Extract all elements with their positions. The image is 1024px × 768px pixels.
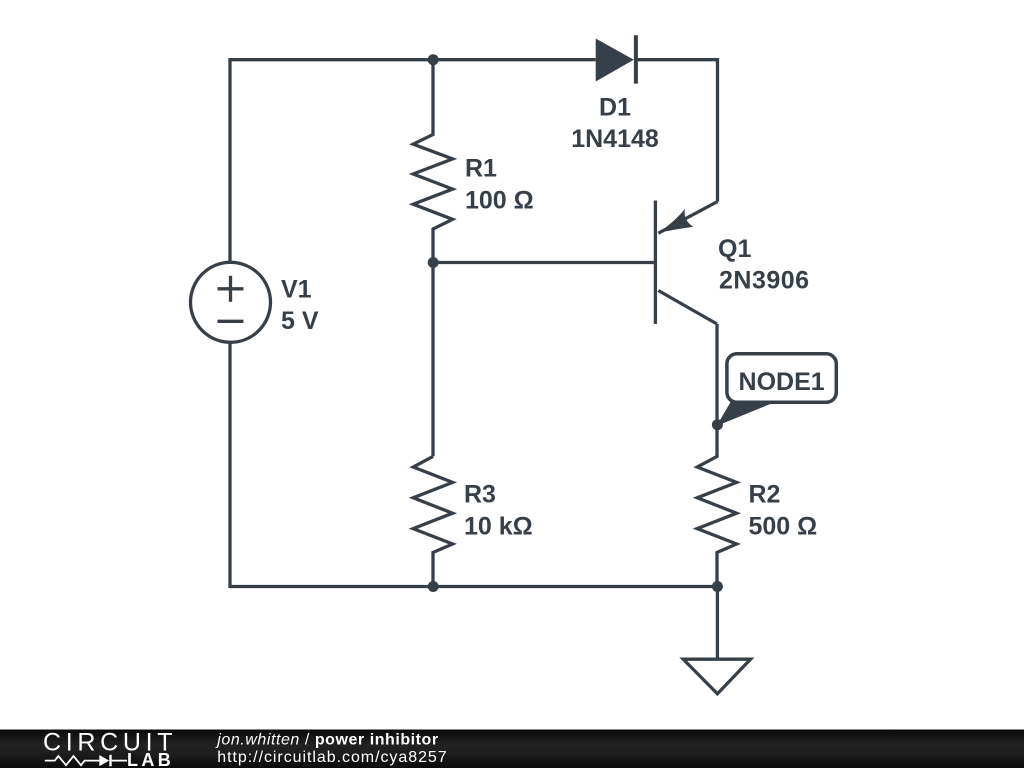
svg-text:R3: R3	[464, 481, 496, 509]
svg-text:Q1: Q1	[718, 235, 751, 263]
wire: base wire from junction to Q1	[433, 261, 654, 264]
resistor R2	[697, 425, 736, 587]
node: junction of R3 and bottom rail	[428, 581, 439, 592]
wire: junction down to R3	[431, 263, 434, 457]
diode D1	[596, 35, 636, 83]
footer bar	[0, 730, 1024, 768]
svg-text:100 Ω: 100 Ω	[465, 187, 534, 215]
transistor Q1 (PNP 2N3906)	[655, 201, 717, 325]
wire: junction to ground symbol	[716, 587, 719, 660]
CircuitLab logo	[43, 729, 177, 768]
svg-text:5 V: 5 V	[281, 307, 319, 335]
node NODE1 flag	[717, 354, 837, 426]
svg-text:1N4148: 1N4148	[571, 125, 659, 153]
ground	[683, 659, 750, 694]
svg-text:10 kΩ: 10 kΩ	[464, 512, 533, 540]
wire: left rail upper segment (top rail to V1 plus terminal)	[228, 58, 231, 262]
resistor R1	[413, 60, 452, 263]
svg-text:R1: R1	[465, 155, 497, 183]
wire: bottom rail	[230, 585, 717, 588]
svg-text:R2: R2	[749, 481, 781, 509]
svg-text:2N3906: 2N3906	[719, 267, 810, 295]
svg-text:NODE1: NODE1	[739, 368, 825, 396]
svg-text:LAB: LAB	[127, 750, 174, 768]
svg-text:500 Ω: 500 Ω	[749, 512, 818, 540]
svg-text:D1: D1	[599, 94, 631, 122]
svg-text:http://circuitlab.com/cya8257: http://circuitlab.com/cya8257	[217, 749, 447, 766]
wire: Q1 collector down to NODE1 junction	[715, 324, 718, 425]
node: junction of top rail and R1	[428, 54, 439, 65]
resistor R3	[413, 456, 452, 586]
node: junction of Q1 collector and R2 (NODE1)	[712, 419, 723, 430]
wire: diode cathode to Q1 emitter (corner at x=717.5)	[636, 60, 718, 202]
svg-text:jon.whitten / power inhibitor: jon.whitten / power inhibitor	[215, 731, 438, 748]
node: junction of R1, base wire and R3	[428, 257, 439, 268]
voltage source V1	[191, 262, 271, 342]
wire: top rail from V1 top corner to diode anode	[230, 58, 596, 61]
svg-text:V1: V1	[281, 276, 312, 304]
wire: left rail lower segment (V1 minus terminal to bottom rail)	[228, 342, 231, 588]
node: junction of R2, bottom rail and ground	[712, 581, 723, 592]
